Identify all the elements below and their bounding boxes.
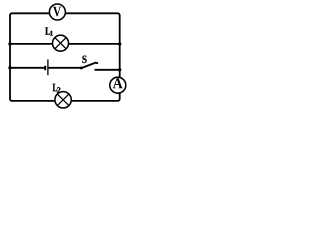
battery positive plate: [47, 59, 49, 75]
wire row2: [10, 43, 120, 45]
voltmeter V: [49, 4, 65, 20]
junction dot left row2: [8, 42, 11, 45]
wire row3 battery to switch pivot: [48, 67, 81, 69]
label L1: [45, 27, 53, 35]
lamp L1: [53, 35, 69, 51]
wire row3 switch contact to right: [95, 69, 120, 71]
wire row3 left to battery: [10, 67, 45, 69]
battery negative plate: [44, 66, 46, 71]
ammeter A: [110, 77, 126, 93]
switch S pivot dot: [80, 66, 83, 69]
junction dot left row3: [8, 66, 11, 69]
lamp L2: [55, 92, 71, 108]
junction dot right row3: [118, 68, 121, 71]
label S: [82, 56, 86, 63]
switch S blade: [81, 63, 97, 69]
label L2: [53, 84, 61, 93]
junction dot right row2: [118, 42, 121, 45]
wire outer loop (left vertical, top row, right vertical, bottom row): [10, 13, 120, 101]
